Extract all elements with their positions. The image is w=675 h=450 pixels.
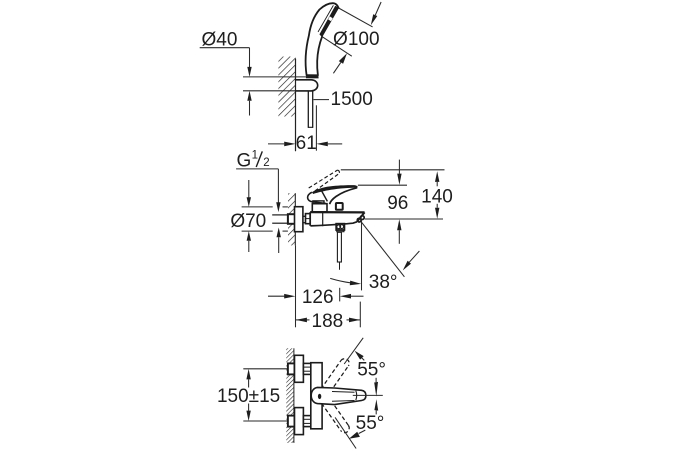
dark collar at handle bottom [306, 74, 319, 78]
55deg arrows upper [355, 351, 365, 361]
dimension 38deg [330, 221, 419, 291]
handle right edge [317, 37, 322, 76]
svg-text:188: 188 [312, 311, 344, 332]
head rim line [318, 6, 333, 32]
mixer body side view [310, 201, 364, 226]
white notch in face plate [328, 16, 333, 21]
svg-text:55°: 55° [356, 413, 385, 434]
svg-text:38°: 38° [369, 272, 398, 293]
svg-text:61: 61 [296, 133, 317, 154]
lever arm inner lines [355, 391, 358, 401]
dimension Ø40 [200, 48, 311, 116]
lever with hub (top view, merged bullet shape) [311, 387, 366, 404]
upper union (top view) [288, 355, 311, 382]
55deg arrows lower [349, 430, 365, 439]
bottom wall (dense hatch) [286, 348, 294, 443]
dashed lever down position [322, 400, 350, 432]
dimension 150+-15 [243, 369, 287, 421]
dimension 126 [268, 288, 364, 302]
lever handle (dashed, open position) [309, 170, 340, 191]
dimension 140 [435, 171, 439, 218]
svg-text:Ø100: Ø100 [333, 29, 379, 50]
wall (hatched) top view [278, 57, 295, 117]
label 1500 with leader [314, 99, 330, 101]
lever handle (solid) [312, 185, 358, 194]
svg-text:140: 140 [421, 186, 453, 207]
extension lines 140 / 96 [341, 170, 445, 219]
middle wall [288, 193, 295, 245]
dimension Ø100 [322, 2, 381, 73]
supply pipe [272, 214, 288, 216]
dimension 61 [268, 105, 342, 150]
wall surface line [295, 59, 297, 151]
dashed lever up position [321, 359, 349, 393]
hand shower outer contour [305, 3, 338, 75]
outlet fitting below body [336, 224, 344, 270]
svg-text:2: 2 [263, 157, 269, 169]
centerline angle arrows [374, 378, 378, 415]
shower hose [307, 92, 309, 128]
svg-text:Ø70: Ø70 [230, 211, 266, 232]
svg-text:55°: 55° [357, 360, 386, 381]
mixer body bar (top view) [311, 363, 322, 429]
dimension G1/2 leader [236, 169, 281, 253]
svg-text:150±15: 150±15 [217, 386, 280, 407]
svg-text:96: 96 [387, 193, 408, 214]
center line through lever [353, 394, 383, 396]
vertical extension at wall (126/188 left) [295, 245, 297, 327]
dimension Ø70 [242, 180, 288, 252]
svg-text:126: 126 [302, 287, 334, 308]
dimension 96 [397, 160, 402, 244]
55deg leaders [335, 338, 363, 449]
mixer fittings at wall [288, 207, 310, 232]
svg-text:Ø40: Ø40 [202, 30, 238, 51]
dimension 188 [296, 302, 360, 328]
wall bracket / holder [296, 80, 318, 91]
lower union (top view) [288, 408, 311, 435]
shower head face plate (dark strip) [320, 6, 339, 36]
svg-text:1: 1 [252, 149, 258, 161]
hub hole [318, 394, 321, 399]
svg-text:1500: 1500 [331, 89, 373, 110]
